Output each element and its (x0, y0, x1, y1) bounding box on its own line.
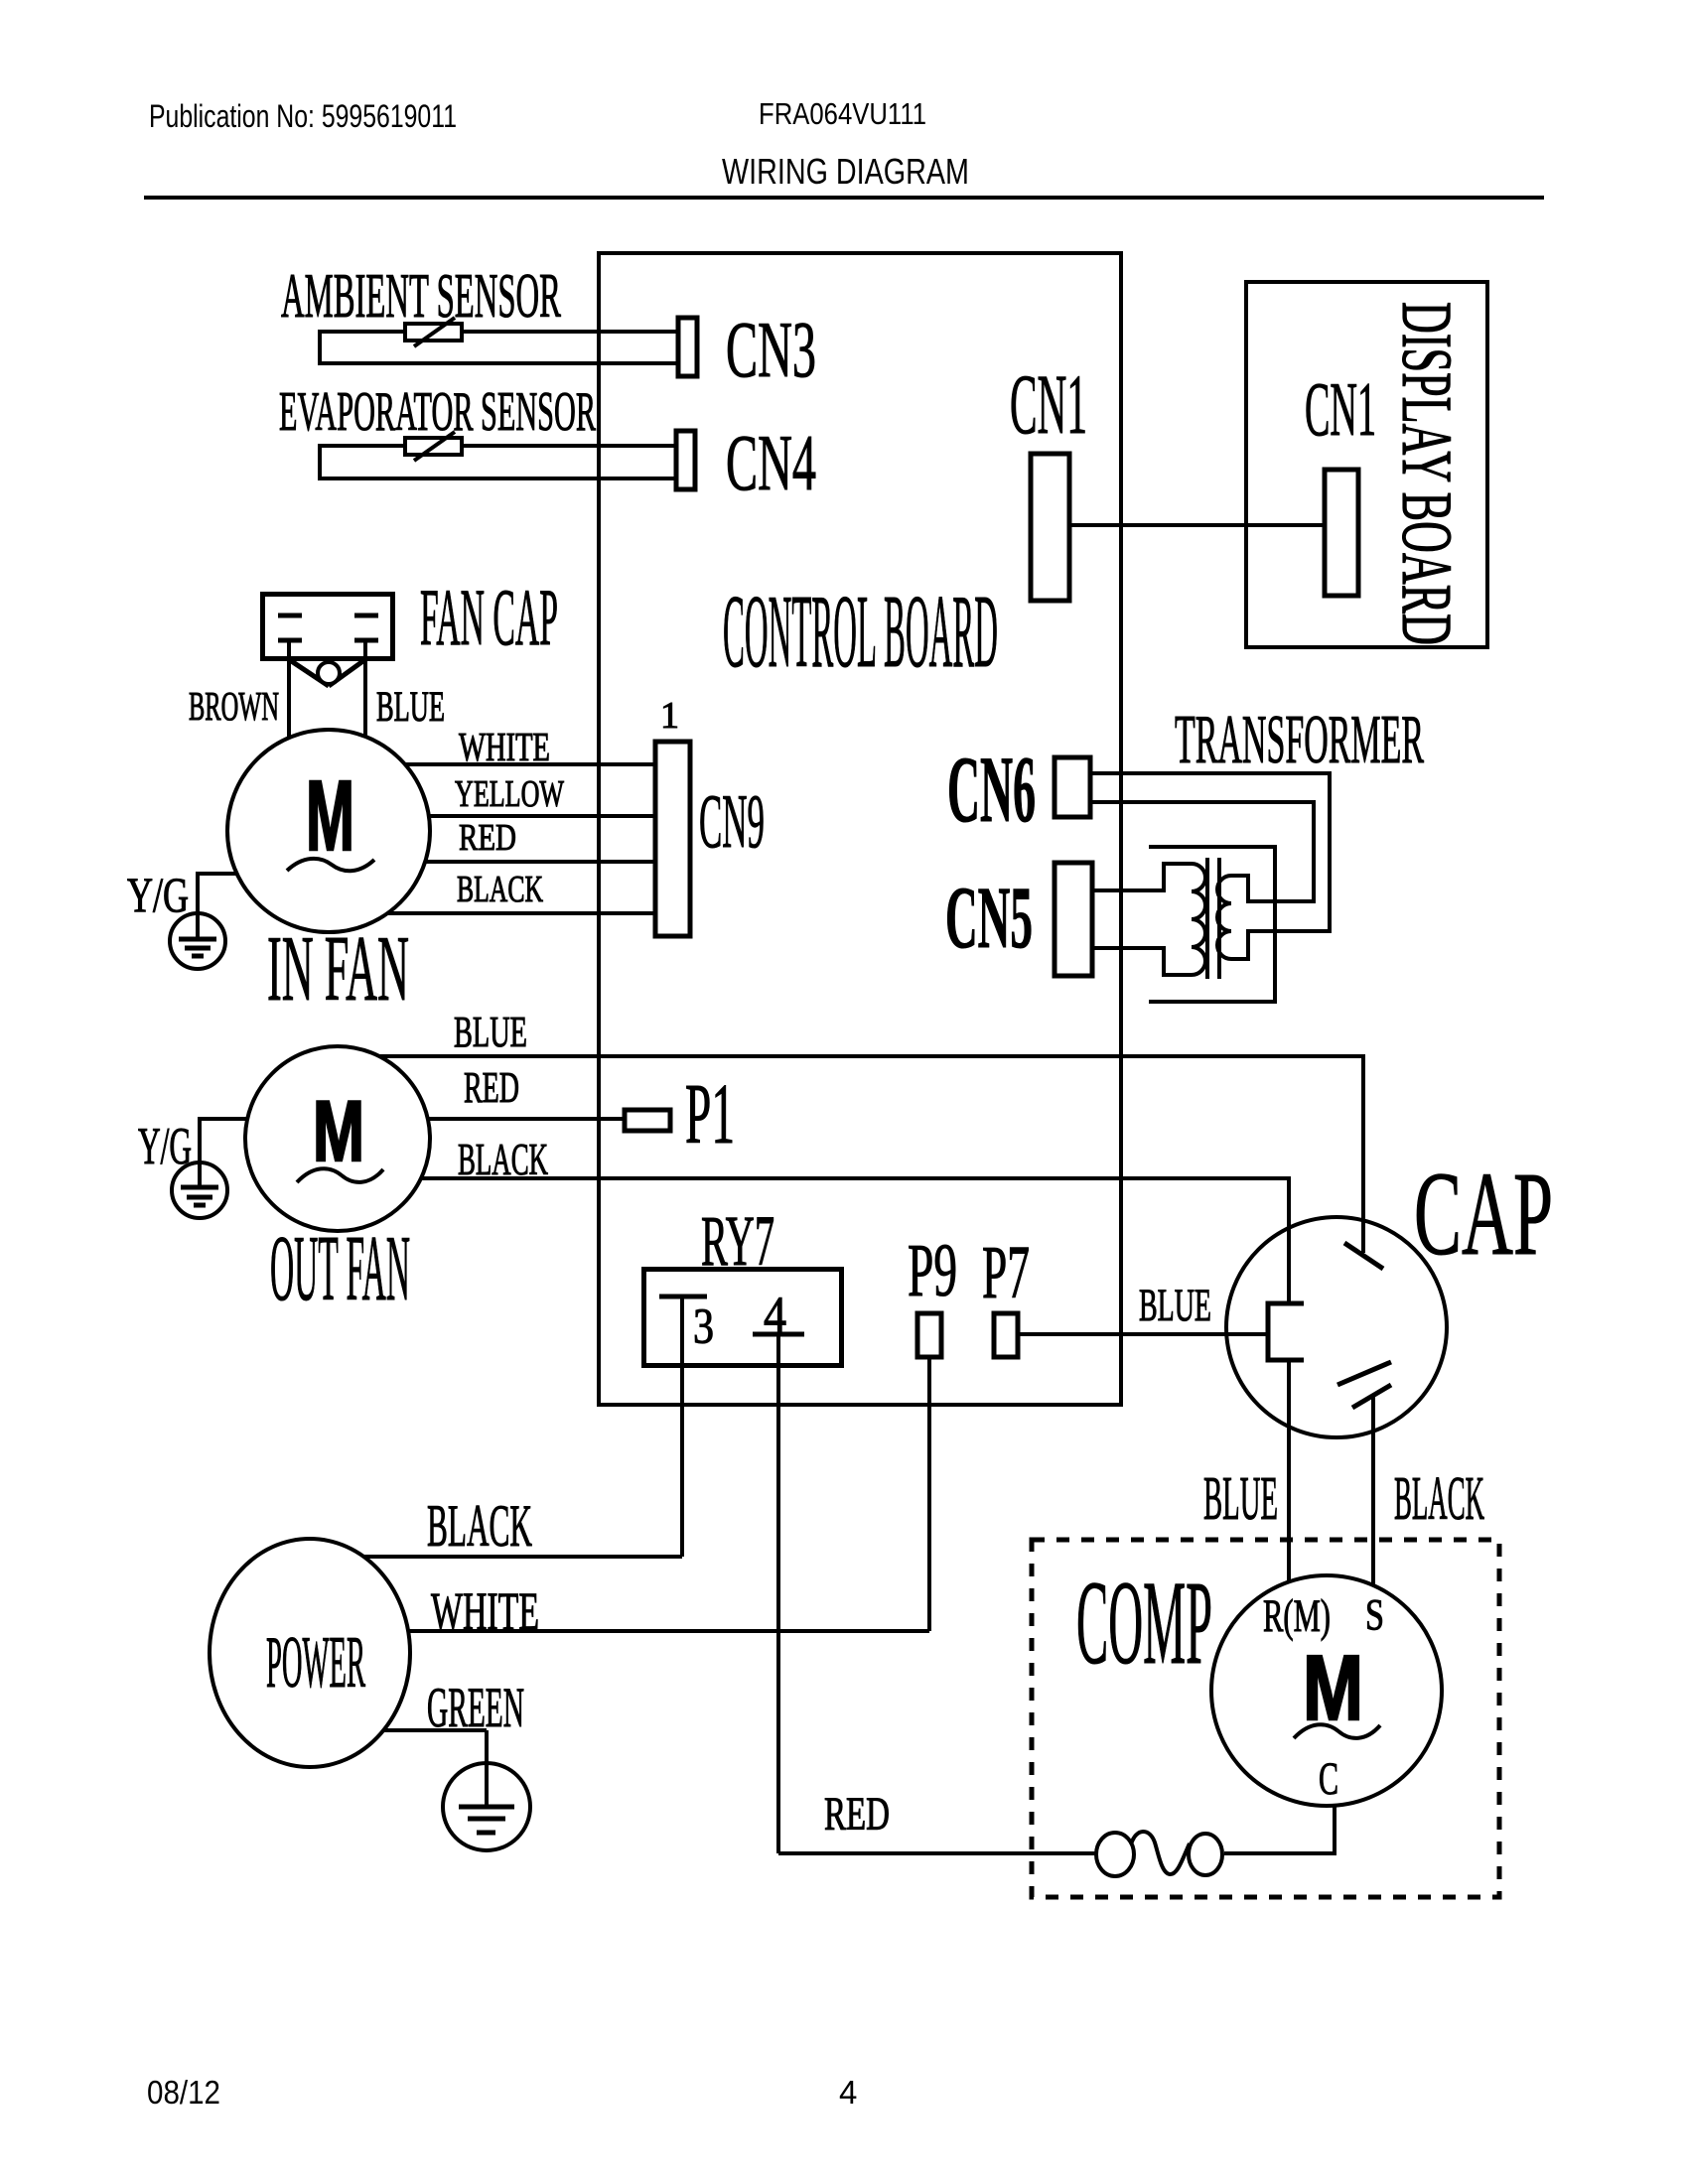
motor COMP circle (1211, 1575, 1442, 1806)
svg-text:08/12: 08/12 (147, 2074, 220, 2111)
wire white (405, 762, 655, 766)
svg-text:P7: P7 (982, 1231, 1030, 1314)
svg-text:BROWN: BROWN (189, 683, 279, 729)
fan cap leads (287, 641, 291, 738)
svg-text:M: M (1303, 1636, 1363, 1739)
pin 4 bar (753, 1332, 804, 1337)
evaporator sensor thermistor (405, 438, 462, 455)
ground (out fan) (172, 1162, 227, 1218)
wire red to comp fuse (778, 1851, 1096, 1855)
svg-text:WHITE: WHITE (459, 724, 550, 769)
svg-text:OUT FAN: OUT FAN (270, 1217, 410, 1320)
svg-text:BLACK: BLACK (1394, 1465, 1484, 1533)
svg-text:Y/G: Y/G (127, 867, 189, 922)
wire pin 3 to power black (680, 1297, 684, 1557)
svg-text:CAP: CAP (1414, 1148, 1553, 1281)
svg-text:WHITE: WHITE (431, 1581, 539, 1641)
motor COMP tilde (1294, 1724, 1380, 1738)
motor IN FAN tilde (287, 859, 374, 871)
wire ambient sensor loop (320, 332, 676, 363)
wire red (425, 860, 655, 864)
connector P1 (625, 1110, 670, 1131)
connector CN3 (678, 318, 697, 376)
svg-text:DISPLAY BOARD: DISPLAY BOARD (1387, 302, 1467, 645)
fan capacitor box (263, 595, 393, 659)
motor IN FAN circle (227, 730, 430, 932)
compressor dashed box (1032, 1540, 1499, 1897)
connector CN9 (655, 742, 690, 936)
wire to ground (in fan) (198, 874, 237, 913)
wire P9 to power white (927, 1357, 931, 1631)
svg-text:BLUE: BLUE (1203, 1465, 1278, 1533)
wire yellow (429, 814, 655, 818)
svg-text:CONTROL BOARD: CONTROL BOARD (723, 573, 998, 689)
transformer frame bracket (1149, 847, 1275, 1002)
connector CN1 on control board (1031, 454, 1069, 601)
svg-text:CN1: CN1 (1010, 356, 1087, 452)
svg-text:CN6: CN6 (947, 737, 1036, 842)
svg-text:COMP: COMP (1076, 1557, 1212, 1690)
overload protector left circle (1096, 1833, 1134, 1876)
wire white power to P9 (408, 1629, 929, 1633)
svg-text:BLACK: BLACK (457, 869, 543, 910)
transformer core (1205, 858, 1209, 979)
wire green power to ground (383, 1728, 487, 1732)
svg-text:Publication No: 5995619011: Publication No: 5995619011 (149, 98, 457, 134)
svg-text:BLUE: BLUE (1139, 1280, 1211, 1331)
svg-text:4: 4 (839, 2074, 857, 2111)
svg-text:C: C (1319, 1753, 1338, 1805)
svg-text:3: 3 (693, 1299, 714, 1355)
svg-text:P9: P9 (908, 1229, 957, 1312)
svg-text:1: 1 (660, 695, 679, 737)
capacitor CAP circle (1226, 1217, 1447, 1437)
cap bottom contact slashes (1337, 1362, 1391, 1385)
wire P7 blue to cap (1020, 1332, 1268, 1336)
svg-text:CN5: CN5 (945, 870, 1033, 967)
transformer secondary winding (1217, 876, 1330, 959)
cap common bracket (1268, 1303, 1304, 1360)
svg-text:CN1: CN1 (1305, 366, 1376, 452)
svg-text:AMBIENT SENSOR: AMBIENT SENSOR (281, 261, 561, 331)
display board box (1246, 282, 1487, 647)
svg-text:R(M): R(M) (1263, 1590, 1331, 1642)
connector CN1 on display board (1325, 470, 1358, 596)
svg-text:FAN CAP: FAN CAP (420, 572, 558, 662)
wire pin 4 to comp red (776, 1334, 780, 1853)
ambient sensor thermistor (405, 324, 462, 341)
wire black (387, 911, 655, 915)
svg-text:TRANSFORMER: TRANSFORMER (1175, 702, 1424, 778)
svg-text:GREEN: GREEN (427, 1677, 524, 1739)
svg-text:POWER: POWER (266, 1622, 365, 1704)
svg-text:RED: RED (824, 1788, 890, 1841)
fan cap V junction (290, 660, 329, 686)
svg-text:IN FAN: IN FAN (267, 917, 409, 1021)
connector CN4 (676, 431, 695, 489)
transformer primary winding (1094, 864, 1205, 975)
svg-text:YELLOW: YELLOW (455, 773, 564, 815)
svg-text:BLUE: BLUE (376, 684, 445, 731)
ground (power) (443, 1763, 530, 1850)
svg-text:EVAPORATOR SENSOR: EVAPORATOR SENSOR (279, 381, 596, 443)
svg-text:P1: P1 (685, 1065, 735, 1161)
wire black cap to comp (1371, 1396, 1375, 1585)
motor OUT FAN circle (245, 1046, 430, 1231)
ground (in fan) (170, 913, 225, 969)
svg-text:BLUE: BLUE (454, 1008, 527, 1056)
wire red out fan to P1 (428, 1117, 625, 1121)
header rule (144, 196, 1544, 200)
wire CN1 to display board (1069, 523, 1325, 527)
svg-text:CN4: CN4 (726, 420, 816, 507)
svg-text:M: M (306, 760, 354, 872)
relay RY7 box (644, 1270, 842, 1366)
motor OUT FAN tilde (297, 1168, 383, 1182)
wire evaporator sensor loop (320, 446, 674, 478)
svg-text:CN9: CN9 (699, 778, 765, 864)
cap top contact slash (1344, 1243, 1383, 1269)
svg-text:FRA064VU111: FRA064VU111 (759, 96, 926, 131)
connector CN5 (1055, 863, 1092, 976)
overload protector right circle (1189, 1834, 1222, 1875)
connector P7 (994, 1313, 1018, 1357)
svg-text:RED: RED (464, 1063, 519, 1112)
wire black out fan to cap common (421, 1178, 1289, 1303)
wire CN6 bottom to transformer (1092, 802, 1314, 901)
wire black power to pin3 (363, 1555, 682, 1559)
pin 3 bar (659, 1295, 707, 1299)
wire to ground (out fan) (200, 1119, 247, 1162)
svg-text:BLACK: BLACK (427, 1493, 532, 1559)
wire blue out fan to cap (379, 1056, 1363, 1253)
wire CN6 top to transformer (1092, 773, 1330, 931)
svg-text:4: 4 (764, 1287, 786, 1344)
svg-text:RED: RED (459, 817, 516, 859)
connector P9 (917, 1313, 941, 1357)
svg-text:BLACK: BLACK (458, 1135, 548, 1184)
svg-text:M: M (313, 1084, 364, 1179)
control board box (599, 253, 1121, 1405)
svg-text:WIRING DIAGRAM: WIRING DIAGRAM (722, 151, 969, 192)
wire C terminal to fuse (1224, 1806, 1335, 1853)
wire blue cap to comp (1287, 1360, 1291, 1581)
svg-text:S: S (1365, 1590, 1384, 1639)
connector CN6 (1055, 757, 1090, 817)
overload protector wave (1131, 1832, 1190, 1874)
fan cap terminal dashes (278, 614, 302, 618)
power source circle (210, 1539, 410, 1767)
svg-text:CN3: CN3 (726, 307, 816, 394)
